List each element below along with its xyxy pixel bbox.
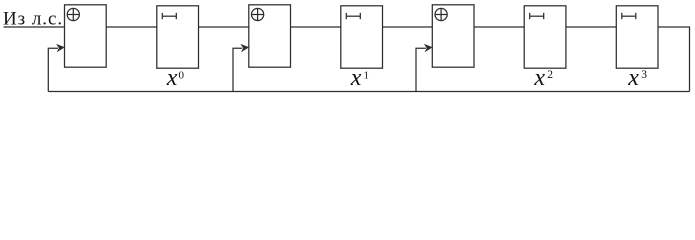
adder A2: modulo-2 adder (XOR) box <box>249 5 291 67</box>
node: arrowhead into adder A3 <box>424 44 433 53</box>
wire: feedback riser into adder A1 <box>48 48 58 91</box>
wire: feedback riser into adder A2 <box>233 48 242 91</box>
svg-text:3: 3 <box>641 69 647 81</box>
node: delay symbol of T2 <box>346 13 360 19</box>
wire: bottom feedback bus <box>48 91 689 93</box>
wire: delay T2 output to adder A3 <box>383 26 433 28</box>
delay element T4 (cell x^3) <box>616 6 658 68</box>
node: label x^1 <box>350 65 369 91</box>
node: delay symbol of T3 <box>530 13 544 19</box>
svg-text:0: 0 <box>179 69 185 81</box>
adder A3: modulo-2 adder (XOR) box <box>432 5 474 67</box>
node: delay symbol of T1 <box>162 13 176 19</box>
svg-text:x: x <box>627 65 639 91</box>
node: XOR symbol of adder A3 <box>435 8 447 20</box>
node: label x^3 <box>627 65 647 91</box>
node: arrowhead into adder A1 <box>56 44 65 53</box>
delay element T1 (cell x^0) <box>157 6 199 68</box>
wire: delay T1 output to adder A2 <box>199 26 249 28</box>
wire: feedback riser into adder A3 <box>416 48 426 91</box>
svg-text:x: x <box>350 65 362 91</box>
node: delay symbol of T4 <box>622 13 636 19</box>
delay element T3 (cell x^2) <box>524 6 566 68</box>
wire: adder A3 output to delay T3 <box>474 26 524 28</box>
svg-text:Из л.с.: Из л.с. <box>3 9 63 30</box>
svg-text:x: x <box>533 65 545 91</box>
svg-text:1: 1 <box>364 69 370 81</box>
svg-text:x: x <box>166 65 178 91</box>
wire: adder A1 output to delay T1 <box>106 26 157 28</box>
node: arrowhead into adder A2 <box>240 44 249 53</box>
adder A1: modulo-2 adder (XOR) box <box>65 5 107 67</box>
wire: adder A2 output to delay T2 <box>291 26 341 28</box>
node: input net label "Из л.с." <box>3 9 63 30</box>
svg-text:2: 2 <box>547 69 553 81</box>
wire: delay T4 output to feedback corner <box>658 27 690 92</box>
delay element T2 (cell x^1) <box>341 6 383 68</box>
wire: input from left into adder A1 <box>4 26 65 28</box>
node: XOR symbol of adder A2 <box>252 8 264 20</box>
node: label x^2 <box>533 65 553 91</box>
node: label x^0 <box>166 65 185 91</box>
node: XOR symbol of adder A1 <box>67 8 79 20</box>
wire: delay T3 output to delay T4 <box>566 26 616 28</box>
